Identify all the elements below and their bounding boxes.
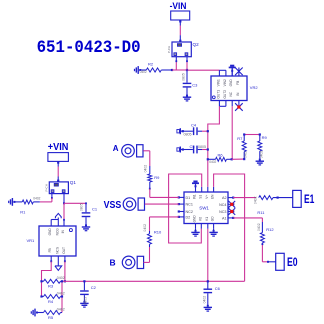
svg-text:D2: D2: [186, 216, 191, 220]
svg-text:0402: 0402: [33, 196, 40, 200]
svg-text:VSS: VSS: [104, 200, 122, 211]
svg-text:0402: 0402: [57, 276, 65, 280]
svg-text:0805: 0805: [198, 145, 206, 149]
svg-text:Q2: Q2: [193, 42, 200, 47]
svg-text:VIN2: VIN2: [223, 79, 227, 86]
svg-text:Q1: Q1: [70, 180, 77, 185]
svg-text:0402: 0402: [140, 70, 147, 74]
svg-text:VIN1: VIN1: [216, 79, 220, 86]
svg-text:A1: A1: [222, 217, 227, 221]
svg-text:R3: R3: [48, 284, 54, 289]
svg-text:R9: R9: [262, 135, 268, 140]
svg-text:0402: 0402: [143, 165, 147, 173]
svg-text:OUT1: OUT1: [216, 90, 220, 99]
svg-text:0402: 0402: [209, 160, 216, 164]
svg-text:R1: R1: [20, 210, 26, 215]
svg-text:R7: R7: [237, 136, 243, 141]
svg-text:D1: D1: [186, 196, 191, 200]
svg-text:0805: 0805: [184, 132, 192, 136]
svg-text:GND: GND: [229, 79, 233, 87]
svg-text:0805: 0805: [84, 297, 88, 305]
svg-text:0402: 0402: [259, 151, 263, 159]
svg-text:R4: R4: [48, 299, 54, 304]
svg-text:C3: C3: [192, 83, 198, 88]
svg-text:0805: 0805: [182, 73, 186, 81]
svg-text:S1: S1: [199, 195, 203, 199]
svg-text:0402: 0402: [254, 196, 258, 204]
svg-text:VR1: VR1: [27, 238, 36, 243]
svg-text:0402: 0402: [257, 223, 261, 231]
svg-text:NC2: NC2: [186, 210, 193, 214]
svg-text:R2: R2: [148, 61, 154, 66]
svg-text:K1: K1: [205, 217, 209, 221]
svg-text:OUT2: OUT2: [223, 90, 227, 99]
svg-text:651-0423-D0: 651-0423-D0: [37, 39, 141, 58]
svg-text:NC: NC: [229, 91, 233, 96]
svg-text:C4: C4: [191, 122, 197, 127]
svg-text:0402: 0402: [57, 291, 65, 295]
svg-text:P-CH: P-CH: [44, 184, 48, 191]
svg-text:0402: 0402: [57, 307, 65, 311]
svg-text:E1: E1: [304, 192, 315, 206]
svg-text:C1: C1: [92, 206, 98, 211]
svg-text:E0: E0: [287, 255, 298, 269]
svg-text:GD: GD: [211, 216, 215, 221]
svg-text:NC3: NC3: [219, 210, 226, 214]
svg-text:OUT: OUT: [62, 247, 66, 254]
svg-text:IN1: IN1: [193, 194, 197, 199]
svg-text:+VIN: +VIN: [48, 142, 69, 153]
svg-text:R12: R12: [266, 227, 274, 232]
svg-text:GND: GND: [48, 228, 52, 236]
svg-text:R10: R10: [154, 229, 162, 234]
svg-text:R11: R11: [257, 210, 265, 215]
svg-text:NC4: NC4: [219, 203, 226, 207]
svg-text:SW1: SW1: [199, 206, 209, 211]
svg-text:0402: 0402: [202, 296, 206, 304]
svg-text:V+: V+: [205, 195, 209, 199]
svg-text:K0: K0: [198, 217, 202, 221]
svg-text:EN: EN: [211, 194, 215, 199]
svg-text:A2: A2: [222, 196, 227, 200]
svg-text:R9: R9: [154, 175, 160, 180]
svg-text:R5: R5: [48, 315, 54, 320]
svg-text:NCS: NCS: [55, 247, 59, 254]
svg-text:0402: 0402: [243, 151, 247, 158]
svg-text:FB: FB: [236, 81, 240, 85]
svg-text:VR2: VR2: [250, 85, 259, 90]
svg-text:NCG: NCG: [55, 228, 59, 236]
svg-text:C6: C6: [215, 286, 221, 291]
svg-text:0402: 0402: [143, 224, 147, 232]
svg-text:A: A: [113, 144, 119, 153]
svg-text:C2: C2: [91, 285, 97, 290]
svg-text:0805: 0805: [79, 203, 83, 211]
svg-text:FB: FB: [48, 248, 52, 252]
svg-text:R6: R6: [218, 152, 224, 157]
svg-text:C5: C5: [190, 144, 196, 149]
svg-text:NC1: NC1: [186, 203, 193, 207]
svg-text:GND: GND: [193, 215, 197, 223]
svg-text:B: B: [110, 257, 116, 267]
svg-text:P-CH: P-CH: [167, 46, 171, 53]
